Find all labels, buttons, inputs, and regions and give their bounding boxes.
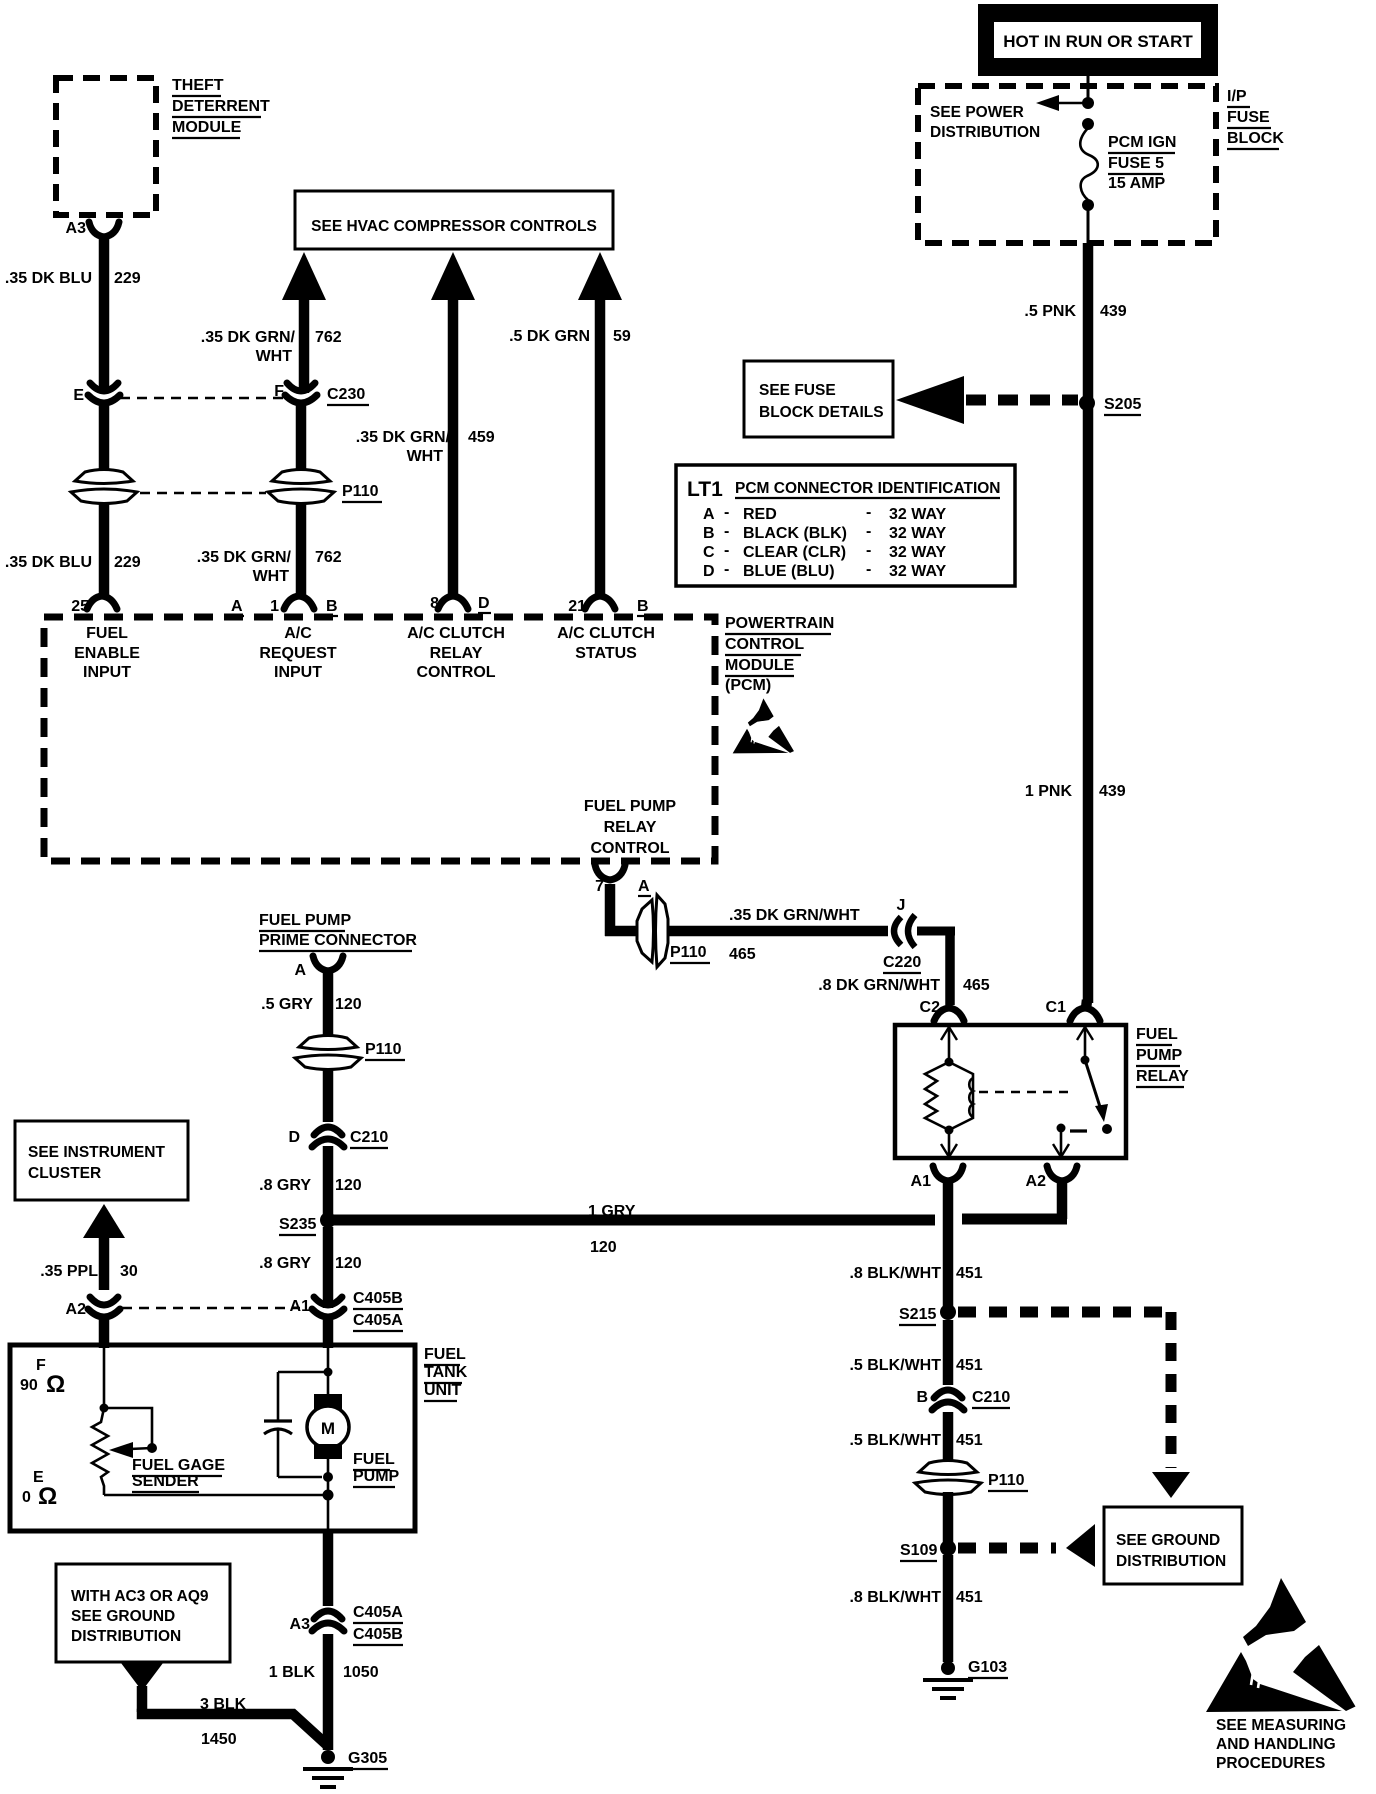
svg-text:SEE POWER: SEE POWER xyxy=(930,104,1024,121)
PCM pin 8 fork xyxy=(430,595,491,613)
svg-text:.8 BLK/WHT: .8 BLK/WHT xyxy=(849,1589,941,1606)
svg-text:C230: C230 xyxy=(327,386,365,403)
label .8 DK GRN/WHT 465 xyxy=(818,977,990,994)
svg-text:FUEL PUMP: FUEL PUMP xyxy=(584,798,676,815)
svg-text:1 GRY: 1 GRY xyxy=(588,1203,636,1220)
svg-text:25: 25 xyxy=(71,598,89,615)
wire to C210 xyxy=(323,1068,334,1122)
svg-text:451: 451 xyxy=(956,1357,983,1374)
dashed association line A2-A1 xyxy=(122,1307,300,1310)
arrow to HVAC (A/C clutch relay control wire) xyxy=(431,252,475,597)
svg-text:M: M xyxy=(321,1419,335,1438)
svg-text:Ω: Ω xyxy=(38,1483,57,1510)
svg-text:A3: A3 xyxy=(66,220,87,237)
svg-text:DISTRIBUTION: DISTRIBUTION xyxy=(71,1628,181,1645)
svg-text:A: A xyxy=(703,506,715,523)
label .35 DK GRN/WHT 459 xyxy=(356,429,495,465)
splice S235 xyxy=(279,1212,336,1235)
wire .35 DK BLU 229 (lower) xyxy=(99,502,110,597)
svg-text:B: B xyxy=(916,1389,928,1406)
svg-text:A2: A2 xyxy=(1026,1173,1047,1190)
PCM IGN FUSE 5 15 AMP fuse element xyxy=(1080,128,1098,200)
fuel gage sender resistor xyxy=(92,1408,108,1495)
svg-text:MODULE: MODULE xyxy=(725,657,795,674)
I/P fuse block dashed box xyxy=(918,86,1216,243)
dashed wire S215 to ground distribution xyxy=(958,1312,1190,1498)
svg-text:RED: RED xyxy=(743,506,777,523)
svg-text:A1: A1 xyxy=(290,1298,311,1315)
FUEL PUMP RELAY CONTROL label xyxy=(584,798,676,857)
svg-text:30: 30 xyxy=(120,1263,138,1280)
svg-text:1 PNK: 1 PNK xyxy=(1025,783,1073,800)
svg-text:90: 90 xyxy=(20,1377,38,1394)
label .8 BLK/WHT 451 (A1) xyxy=(849,1265,982,1282)
connector C230 cavity F xyxy=(274,383,369,405)
fuel tank unit box xyxy=(10,1345,415,1531)
arrow to HVAC (A/C clutch status wire) xyxy=(578,252,622,597)
SEE GROUND DISTRIBUTION box xyxy=(1104,1507,1242,1584)
svg-text:G103: G103 xyxy=(968,1659,1007,1676)
svg-text:DETERRENT: DETERRENT xyxy=(172,98,270,115)
svg-text:32 WAY: 32 WAY xyxy=(889,563,947,580)
FUEL PUMP label xyxy=(353,1451,400,1487)
arrow from AC3 box down xyxy=(121,1663,163,1691)
dashed association line P110 xyxy=(140,492,266,495)
svg-text:-: - xyxy=(724,542,729,559)
wire 1 PNK into C1 xyxy=(1086,1000,1087,1009)
svg-text:UNIT: UNIT xyxy=(424,1382,462,1399)
connector P110 (prime connector leg) xyxy=(295,1036,405,1070)
svg-text:FUEL: FUEL xyxy=(1136,1026,1178,1043)
connector C230 cavity E xyxy=(73,383,120,404)
connector C220 (J cavity) xyxy=(883,897,921,973)
relay coil terminal to A1 xyxy=(941,1126,957,1159)
svg-text:A1: A1 xyxy=(911,1173,932,1190)
svg-text:I/P: I/P xyxy=(1227,88,1247,105)
svg-text:BLUE (BLU): BLUE (BLU) xyxy=(743,563,835,580)
svg-text:A: A xyxy=(638,878,650,895)
pin A3 of theft module xyxy=(66,220,119,237)
svg-text:CONTROL: CONTROL xyxy=(725,636,804,653)
svg-text:SENDER: SENDER xyxy=(132,1473,199,1490)
PCM pin 7 fork xyxy=(595,865,651,896)
svg-text:.8 GRY: .8 GRY xyxy=(259,1177,311,1194)
dashed association line C230 E-F xyxy=(120,397,284,400)
svg-text:F: F xyxy=(36,1357,46,1374)
relay switch common from C1 xyxy=(1077,1025,1093,1065)
svg-text:32 WAY: 32 WAY xyxy=(889,506,947,523)
svg-text:21: 21 xyxy=(568,598,586,615)
wire .8 GRY 120 (below S235) xyxy=(323,1227,334,1308)
svg-text:(PCM): (PCM) xyxy=(725,677,771,694)
svg-text:STATUS: STATUS xyxy=(575,645,637,662)
svg-text:.35 PPL: .35 PPL xyxy=(40,1263,98,1280)
HOT IN RUN OR START box xyxy=(978,4,1218,76)
svg-text:465: 465 xyxy=(729,946,756,963)
svg-text:RELAY: RELAY xyxy=(430,645,483,662)
svg-text:CONTROL: CONTROL xyxy=(416,664,495,681)
svg-text:A/C CLUTCH: A/C CLUTCH xyxy=(407,625,505,642)
wire into tank unit (A2) xyxy=(99,1319,110,1348)
svg-text:SEE FUSE: SEE FUSE xyxy=(759,382,836,399)
POWERTRAIN CONTROL MODULE (PCM) label xyxy=(725,615,834,694)
arrow + dashed wire to S205 xyxy=(896,376,1078,424)
svg-text:-: - xyxy=(724,523,729,540)
svg-text:-: - xyxy=(866,523,871,540)
svg-text:LT1: LT1 xyxy=(687,478,723,501)
svg-text:P110: P110 xyxy=(670,944,707,961)
connector P110 (ground leg) xyxy=(915,1461,1028,1495)
svg-text:PCM CONNECTOR IDENTIFICATION: PCM CONNECTOR IDENTIFICATION xyxy=(735,480,1001,497)
svg-text:.5 PNK: .5 PNK xyxy=(1024,303,1076,320)
svg-text:E: E xyxy=(73,387,84,404)
label .35 DK GRN/WHT 465 xyxy=(729,907,860,963)
relay pin A2 fork xyxy=(1026,1166,1077,1190)
sender feed wire inside tank xyxy=(100,1347,109,1413)
svg-text:1 BLK: 1 BLK xyxy=(269,1664,316,1681)
dashed wire S109 to ground distribution xyxy=(958,1524,1095,1567)
svg-text:A/C: A/C xyxy=(284,625,312,642)
LT1 PCM connector identification table xyxy=(676,465,1015,586)
A/C CLUTCH RELAY CONTROL label xyxy=(407,625,505,681)
wire 3 BLK 1450 xyxy=(137,1686,148,1712)
I/P FUSE BLOCK label xyxy=(1227,88,1284,149)
svg-text:FUEL PUMP: FUEL PUMP xyxy=(259,912,351,929)
connector P110 (second leg) xyxy=(268,470,382,504)
svg-text:A/C CLUTCH: A/C CLUTCH xyxy=(557,625,655,642)
svg-text:FUEL: FUEL xyxy=(424,1346,466,1363)
svg-text:F: F xyxy=(274,383,284,400)
relay coil terminal from C2 xyxy=(941,1025,957,1067)
ground G305 xyxy=(303,1750,388,1787)
svg-text:WITH AC3 OR AQ9: WITH AC3 OR AQ9 xyxy=(71,1588,209,1605)
wire 1 GRY 120 (right part) xyxy=(962,1214,1067,1225)
wire .8 GRY 120 (above S235) xyxy=(323,1146,334,1214)
SEE HVAC COMPRESSOR CONTROLS box xyxy=(295,191,613,249)
svg-text:.5 BLK/WHT: .5 BLK/WHT xyxy=(849,1432,941,1449)
svg-text:RELAY: RELAY xyxy=(1136,1068,1189,1085)
sender to pump bottom wire xyxy=(104,1494,327,1497)
svg-text:DISTRIBUTION: DISTRIBUTION xyxy=(930,124,1040,141)
svg-text:3 BLK: 3 BLK xyxy=(200,1696,247,1713)
svg-text:451: 451 xyxy=(956,1432,983,1449)
label .5 DK GRN 59 xyxy=(509,328,631,345)
svg-text:ENABLE: ENABLE xyxy=(74,645,140,662)
connector P110 (left leg) xyxy=(75,470,133,484)
wire .5 BLK/WHT 451 (S215 to C210) xyxy=(943,1320,954,1385)
connector C405A/C405B pin A3 xyxy=(290,1604,404,1645)
svg-text:WHT: WHT xyxy=(256,348,293,365)
svg-text:.8 BLK/WHT: .8 BLK/WHT xyxy=(849,1265,941,1282)
ESD symbol (PCM) xyxy=(733,698,794,753)
svg-text:PROCEDURES: PROCEDURES xyxy=(1216,1755,1325,1772)
svg-text:C: C xyxy=(703,544,715,561)
wire .35 DK GRN/WHT 762 (lower) xyxy=(296,502,307,597)
svg-text:S109: S109 xyxy=(900,1542,937,1559)
svg-text:C220: C220 xyxy=(883,954,921,971)
svg-text:.35 DK GRN/WHT: .35 DK GRN/WHT xyxy=(729,907,860,924)
prime connector pin A xyxy=(294,956,343,979)
svg-text:PRIME CONNECTOR: PRIME CONNECTOR xyxy=(259,932,417,949)
svg-text:-: - xyxy=(724,561,729,578)
svg-text:32 WAY: 32 WAY xyxy=(889,544,947,561)
svg-text:120: 120 xyxy=(335,1255,362,1272)
relay pin C2 fork xyxy=(920,999,964,1021)
svg-text:S235: S235 xyxy=(279,1216,316,1233)
splice S215 xyxy=(899,1304,956,1325)
svg-text:120: 120 xyxy=(335,996,362,1013)
powertrain control module (PCM) dashed box xyxy=(44,617,715,861)
FUEL ENABLE INPUT label xyxy=(74,625,140,681)
svg-text:C405A: C405A xyxy=(353,1604,403,1621)
motor to bottom junctions xyxy=(323,1459,334,1531)
svg-text:SEE HVAC COMPRESSOR CONTROLS: SEE HVAC COMPRESSOR CONTROLS xyxy=(311,218,597,235)
connector C210 cavity B xyxy=(916,1389,1010,1410)
ground G103 xyxy=(923,1659,1008,1698)
svg-text:INPUT: INPUT xyxy=(274,664,322,681)
wire below fuse to block edge xyxy=(1087,209,1090,243)
svg-text:.35 DK GRN/: .35 DK GRN/ xyxy=(356,429,451,446)
A/C CLUTCH STATUS label xyxy=(557,625,655,662)
svg-text:8: 8 xyxy=(430,595,439,612)
svg-text:D: D xyxy=(703,563,715,580)
wire A2 down to 1 GRY run xyxy=(1057,1181,1068,1219)
svg-text:RELAY: RELAY xyxy=(604,819,657,836)
svg-text:PUMP: PUMP xyxy=(1136,1047,1183,1064)
svg-text:15 AMP: 15 AMP xyxy=(1108,175,1166,192)
svg-text:120: 120 xyxy=(590,1239,617,1256)
svg-text:SEE GROUND: SEE GROUND xyxy=(71,1608,175,1625)
wire from HOT box into fuse block xyxy=(1087,74,1090,103)
svg-text:BLACK (BLK): BLACK (BLK) xyxy=(743,525,847,542)
svg-text:7: 7 xyxy=(595,878,604,895)
relay pin A1 fork xyxy=(911,1166,963,1190)
svg-text:-: - xyxy=(866,561,871,578)
arrow to HVAC (A/C request wire) xyxy=(282,252,326,393)
PCM pin 21 fork xyxy=(568,596,649,616)
svg-text:C405A: C405A xyxy=(353,1312,403,1329)
svg-text:WHT: WHT xyxy=(253,568,290,585)
svg-text:MODULE: MODULE xyxy=(172,119,242,136)
svg-text:FUEL: FUEL xyxy=(86,625,128,642)
svg-text:INPUT: INPUT xyxy=(83,664,131,681)
svg-text:TANK: TANK xyxy=(424,1364,468,1381)
fuel pump motor xyxy=(307,1394,349,1459)
svg-text:451: 451 xyxy=(956,1589,983,1606)
SEE INSTRUMENT CLUSTER box xyxy=(15,1121,188,1200)
dashed actuation line coil to switch xyxy=(979,1091,1070,1094)
connector C405B/C405A pin A1 xyxy=(290,1290,404,1331)
svg-text:.35 DK BLU: .35 DK BLU xyxy=(5,554,92,571)
relay switch terminal to A2 xyxy=(1053,1128,1069,1158)
svg-text:FUEL GAGE: FUEL GAGE xyxy=(132,1457,225,1474)
wire from pin 7 down xyxy=(605,884,616,936)
fuel pump relay box xyxy=(895,1025,1126,1158)
svg-text:32 WAY: 32 WAY xyxy=(889,525,947,542)
wire to S109 xyxy=(943,1492,954,1542)
wire .35 DK BLU 229 (upper) xyxy=(99,237,110,393)
FUEL GAGE SENDER label xyxy=(132,1457,225,1492)
wire 465 horizontal run xyxy=(605,926,888,937)
splice S205 xyxy=(1079,395,1141,415)
SEE MEASURING AND HANDLING PROCEDURES label xyxy=(1216,1717,1346,1772)
svg-text:D: D xyxy=(478,595,490,612)
svg-text:.8 DK GRN/WHT: .8 DK GRN/WHT xyxy=(818,977,940,994)
svg-text:120: 120 xyxy=(335,1177,362,1194)
svg-text:SEE GROUND: SEE GROUND xyxy=(1116,1532,1220,1549)
suppression capacitor xyxy=(264,1372,327,1477)
svg-text:DISTRIBUTION: DISTRIBUTION xyxy=(1116,1553,1226,1570)
svg-text:B: B xyxy=(703,525,715,542)
svg-text:SEE MEASURING: SEE MEASURING xyxy=(1216,1717,1346,1734)
svg-text:A2: A2 xyxy=(66,1301,87,1318)
svg-text:439: 439 xyxy=(1100,303,1127,320)
A/C REQUEST INPUT label xyxy=(259,625,337,681)
label .35 PPL 30 xyxy=(40,1263,138,1280)
svg-text:PUMP: PUMP xyxy=(353,1468,400,1485)
junction dots on fuse feed xyxy=(1082,97,1094,109)
svg-text:FUSE: FUSE xyxy=(1227,109,1270,126)
svg-text:C2: C2 xyxy=(920,999,941,1016)
theft deterrent module box xyxy=(56,78,156,215)
svg-text:.35 DK GRN/: .35 DK GRN/ xyxy=(197,549,292,566)
connector C210 cavity D xyxy=(288,1127,388,1148)
svg-text:-: - xyxy=(724,504,729,521)
svg-text:BLOCK DETAILS: BLOCK DETAILS xyxy=(759,404,884,421)
relay pin C1 fork xyxy=(1046,999,1100,1021)
svg-text:439: 439 xyxy=(1099,783,1126,800)
svg-text:0: 0 xyxy=(22,1489,31,1506)
svg-text:.35 DK GRN/: .35 DK GRN/ xyxy=(201,329,296,346)
wire 1 BLK 1050 xyxy=(323,1531,334,1606)
svg-text:A: A xyxy=(231,598,243,615)
FUEL PUMP PRIME CONNECTOR label xyxy=(259,912,417,951)
svg-text:POWERTRAIN: POWERTRAIN xyxy=(725,615,834,632)
wire below F xyxy=(296,404,307,472)
splice S109 xyxy=(900,1540,956,1561)
svg-text:451: 451 xyxy=(956,1265,983,1282)
FUEL TANK UNIT label xyxy=(424,1346,468,1401)
svg-text:C210: C210 xyxy=(350,1129,388,1146)
SEE FUSE BLOCK DETAILS box xyxy=(744,361,893,437)
svg-text:C405B: C405B xyxy=(353,1290,403,1307)
svg-text:SEE INSTRUMENT: SEE INSTRUMENT xyxy=(28,1144,165,1161)
svg-text:B: B xyxy=(637,598,649,615)
svg-text:THEFT: THEFT xyxy=(172,77,224,94)
svg-text:S215: S215 xyxy=(899,1306,936,1323)
wire .5 PNK 439 xyxy=(1083,243,1094,1003)
svg-text:1450: 1450 xyxy=(201,1731,237,1748)
fuel pump motor feed xyxy=(324,1347,333,1394)
sender wiper arm xyxy=(104,1408,157,1458)
svg-text:FUEL: FUEL xyxy=(353,1451,395,1468)
theft deterrent module label xyxy=(172,77,270,138)
svg-text:B: B xyxy=(326,598,338,615)
relay fixed contact xyxy=(1057,1124,1113,1135)
svg-text:A: A xyxy=(294,962,306,979)
svg-text:.8 GRY: .8 GRY xyxy=(259,1255,311,1272)
SEE POWER DISTRIBUTION label xyxy=(930,104,1040,141)
wire 1 GRY 120 (long run to S235) xyxy=(334,1215,935,1226)
arrow up to instrument cluster xyxy=(83,1204,125,1290)
svg-text:A3: A3 xyxy=(290,1616,311,1633)
label .35 DK GRN/WHT 762 (upper) xyxy=(201,329,342,365)
wire .5 GRY 120 xyxy=(323,972,334,1040)
svg-text:59: 59 xyxy=(613,328,631,345)
PCM pin 25 fork xyxy=(71,596,244,616)
wire into tank unit (A1) xyxy=(323,1319,334,1348)
wire .5 BLK/WHT 451 (C210 to P110) xyxy=(943,1412,954,1464)
svg-text:-: - xyxy=(866,542,871,559)
svg-text:AND HANDLING: AND HANDLING xyxy=(1216,1736,1336,1753)
PCM pin 1 fork xyxy=(270,596,338,616)
label 1 PNK 439 xyxy=(1025,783,1126,800)
svg-text:P110: P110 xyxy=(342,483,379,500)
F 90 ohm label xyxy=(20,1357,65,1398)
svg-text:1: 1 xyxy=(270,598,279,615)
svg-text:C210: C210 xyxy=(972,1389,1010,1406)
WITH AC3 OR AQ9 box xyxy=(56,1564,230,1662)
wire A1 down to S215 xyxy=(943,1181,954,1306)
FUEL PUMP RELAY label xyxy=(1136,1026,1189,1087)
svg-text:229: 229 xyxy=(114,270,141,287)
wire .8 BLK/WHT 451 (to G103) xyxy=(943,1555,954,1662)
svg-text:G305: G305 xyxy=(348,1750,387,1767)
relay switch arm xyxy=(1085,1060,1108,1122)
connector C405 cavity A2 xyxy=(66,1297,120,1318)
svg-text:WHT: WHT xyxy=(407,448,444,465)
svg-text:459: 459 xyxy=(468,429,495,446)
svg-text:.35 DK BLU: .35 DK BLU xyxy=(5,270,92,287)
svg-text:Ω: Ω xyxy=(46,1371,65,1398)
svg-text:CONTROL: CONTROL xyxy=(590,840,669,857)
svg-text:S205: S205 xyxy=(1104,396,1141,413)
svg-text:1050: 1050 xyxy=(343,1664,379,1681)
svg-text:-: - xyxy=(866,504,871,521)
svg-text:D: D xyxy=(288,1129,300,1146)
relay coil xyxy=(949,1062,973,1130)
E 0 ohm label xyxy=(22,1469,57,1510)
svg-text:HOT IN RUN OR START: HOT IN RUN OR START xyxy=(1003,32,1193,51)
svg-text:P110: P110 xyxy=(988,1472,1025,1489)
svg-text:BLOCK: BLOCK xyxy=(1227,130,1284,147)
svg-text:.5 DK GRN: .5 DK GRN xyxy=(509,328,590,345)
svg-text:CLEAR (CLR): CLEAR (CLR) xyxy=(743,544,846,561)
svg-text:J: J xyxy=(897,897,906,914)
svg-text:762: 762 xyxy=(315,549,342,566)
svg-text:229: 229 xyxy=(114,554,141,571)
svg-text:465: 465 xyxy=(963,977,990,994)
svg-text:.5 BLK/WHT: .5 BLK/WHT xyxy=(849,1357,941,1374)
svg-text:CLUSTER: CLUSTER xyxy=(28,1165,101,1182)
svg-text:P110: P110 xyxy=(365,1041,402,1058)
arrow to see power distribution xyxy=(1036,95,1088,111)
connector P110 (pin 7 leg, vertical lens) xyxy=(637,895,710,967)
svg-text:C405B: C405B xyxy=(353,1626,403,1643)
svg-text:C1: C1 xyxy=(1046,999,1067,1016)
svg-text:REQUEST: REQUEST xyxy=(259,645,337,662)
wire below E xyxy=(99,404,110,472)
svg-text:.5 GRY: .5 GRY xyxy=(261,996,313,1013)
svg-text:FUSE 5: FUSE 5 xyxy=(1108,155,1164,172)
wire after C220 turning down to C2 xyxy=(917,931,950,1002)
svg-text:762: 762 xyxy=(315,329,342,346)
svg-text:PCM IGN: PCM IGN xyxy=(1108,134,1176,151)
